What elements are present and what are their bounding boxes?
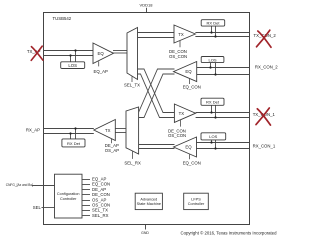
wire RX_CON_1 input pair xyxy=(197,140,250,149)
labels controller outputs xyxy=(92,177,110,218)
wire crossover SEL_TX to TX amp (CON_1) xyxy=(138,69,175,118)
svg-text:GND: GND xyxy=(141,231,149,235)
label DE_AP / OS_AP xyxy=(105,143,119,153)
LFPS Controller box xyxy=(184,193,209,209)
RX Det box (RX_AP side) xyxy=(62,139,85,147)
wire EQ1 output to SEL_TX mux xyxy=(113,51,127,54)
svg-text:Copyright © 2016, Texas Instru: Copyright © 2016, Texas Instruments Inco… xyxy=(181,231,278,236)
no-connect X mark TX_AP xyxy=(31,46,43,60)
wire CNFG input xyxy=(32,185,55,187)
svg-text:RX Det: RX Det xyxy=(206,100,220,105)
svg-text:Advanced: Advanced xyxy=(140,197,157,201)
svg-text:OS_AP: OS_AP xyxy=(105,148,119,153)
wire controller output stubs xyxy=(82,180,90,216)
svg-text:LOS: LOS xyxy=(208,57,216,62)
wire crossover EQ (CON_2) to SEL_RX xyxy=(139,69,175,118)
VDD18 power pin xyxy=(140,2,154,12)
svg-text:TX: TX xyxy=(105,128,111,133)
op-amp EQ (RX_CON_1 equalizer) xyxy=(174,137,197,159)
svg-text:RX_CON_1: RX_CON_1 xyxy=(253,143,276,148)
mux SEL_TX xyxy=(127,28,138,83)
RX Det box (TX_CON_2) xyxy=(201,20,225,26)
svg-text:SEL_RX: SEL_RX xyxy=(124,161,141,166)
wire RX_AP differential pair xyxy=(43,129,94,139)
svg-text:SEL: SEL xyxy=(33,205,42,210)
svg-text:RX_CON_2: RX_CON_2 xyxy=(255,64,278,69)
svg-text:RX_AP: RX_AP xyxy=(26,128,40,133)
no-connect X mark TX_CON_1 xyxy=(256,108,271,125)
svg-text:EQ: EQ xyxy=(185,144,192,149)
svg-text:Configuration: Configuration xyxy=(57,192,80,196)
wire EQ (RX_CON_1) output to SEL_RX xyxy=(139,145,175,149)
Configuration Controller box xyxy=(55,174,83,218)
svg-text:RX Det: RX Det xyxy=(67,141,81,146)
svg-text:SEL_TX: SEL_TX xyxy=(124,82,140,87)
GND pin xyxy=(141,225,149,235)
wire TX output to TX_CON_2 port xyxy=(195,26,249,36)
transistor-driver TX (to TX_CON_2) xyxy=(174,25,195,47)
wire RX_CON_2 input pair xyxy=(197,63,250,75)
Advanced State Machine box xyxy=(135,193,162,209)
svg-text:EQ_CON: EQ_CON xyxy=(183,160,201,165)
label DE_CON / OS_CON (top TX) xyxy=(169,49,187,59)
svg-text:TUSB542: TUSB542 xyxy=(53,16,72,21)
svg-text:SEL_RX: SEL_RX xyxy=(92,213,109,218)
node dots RX_CON_1 xyxy=(210,141,212,143)
node dots TX_CON_1 xyxy=(210,111,212,113)
op-amp EQ1 (TX_AP equalizer) xyxy=(93,43,114,66)
RX Det box (TX_CON_1) xyxy=(201,98,224,105)
chip outline TUSB542 xyxy=(44,13,250,225)
svg-text:VDD18: VDD18 xyxy=(140,2,154,7)
svg-text:State Machine: State Machine xyxy=(137,202,161,206)
svg-text:LOS: LOS xyxy=(209,134,217,139)
svg-text:OS_CON: OS_CON xyxy=(169,54,187,59)
mux SEL_RX xyxy=(126,107,139,159)
svg-text:TX: TX xyxy=(178,32,184,37)
svg-text:Controller: Controller xyxy=(188,202,205,206)
svg-text:Controller: Controller xyxy=(60,197,77,201)
node dots RX_AP taps xyxy=(74,127,76,129)
LOS detector box (RX_CON_1) xyxy=(201,133,226,140)
wire SEL_RX to RX_AP TX driver xyxy=(115,129,126,133)
svg-text:EQ_AP: EQ_AP xyxy=(94,69,108,74)
svg-text:EQ: EQ xyxy=(185,69,192,74)
wire taps to LOS (AP side) xyxy=(71,51,76,62)
LOS detector box (RX_CON_2) xyxy=(201,57,224,63)
svg-text:LOS: LOS xyxy=(68,63,77,68)
node dots TX_CON_2 xyxy=(210,31,212,33)
transistor-driver TX (to TX_CON_1) xyxy=(174,104,195,127)
svg-text:CNFG_[Ax and Bx]: CNFG_[Ax and Bx] xyxy=(6,183,33,187)
label DE_CON / OS_CON (bottom TX) xyxy=(168,129,186,139)
no-connect X mark TX_CON_2 xyxy=(257,30,272,47)
LOS detector box (AP side) xyxy=(61,62,85,69)
wire SEL_TX to TX amp (CON_2) xyxy=(138,33,175,38)
wire SEL input xyxy=(42,207,55,209)
svg-text:OS_CON: OS_CON xyxy=(168,133,186,138)
svg-text:RX Det: RX Det xyxy=(207,21,221,26)
node dots RX_CON_2 xyxy=(209,66,211,68)
svg-text:EQ: EQ xyxy=(97,51,104,56)
node junction dots TX_AP taps xyxy=(74,49,76,51)
svg-text:LFPS: LFPS xyxy=(191,197,201,201)
svg-text:EQ_CON: EQ_CON xyxy=(183,85,201,90)
wire TX_AP differential pair xyxy=(43,51,93,56)
svg-text:TX: TX xyxy=(179,111,185,116)
op-amp EQ (RX_CON_2 equalizer) xyxy=(174,62,197,85)
transistor-driver TX (RX_AP) xyxy=(94,120,116,144)
wire TX output to TX_CON_1 port xyxy=(196,105,250,117)
